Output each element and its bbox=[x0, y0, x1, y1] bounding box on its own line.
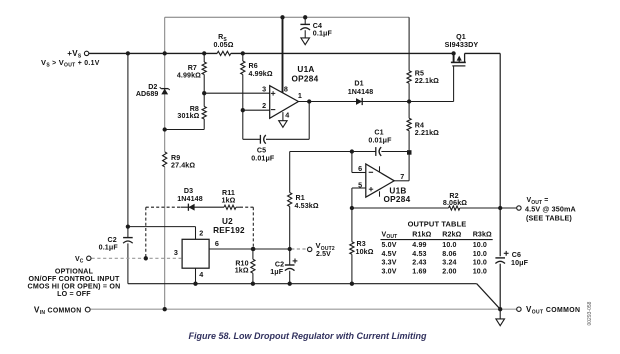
svg-text:00293-058: 00293-058 bbox=[587, 301, 593, 325]
svg-text:SI9433DY: SI9433DY bbox=[445, 40, 479, 49]
svg-text:0.1μF: 0.1μF bbox=[313, 29, 333, 37]
svg-text:4.5V: 4.5V bbox=[382, 250, 397, 258]
svg-text:4.99: 4.99 bbox=[412, 241, 426, 249]
svg-text:22.1kΩ: 22.1kΩ bbox=[415, 77, 439, 85]
svg-text:8.06: 8.06 bbox=[442, 250, 456, 258]
svg-text:R7: R7 bbox=[188, 64, 197, 72]
svg-text:4: 4 bbox=[199, 270, 203, 279]
svg-text:2: 2 bbox=[262, 101, 266, 110]
svg-text:10.0: 10.0 bbox=[473, 250, 487, 258]
svg-text:OP284: OP284 bbox=[384, 195, 411, 204]
svg-text:2.43: 2.43 bbox=[412, 259, 426, 267]
svg-text:4.99kΩ: 4.99kΩ bbox=[249, 70, 273, 78]
svg-text:1kΩ: 1kΩ bbox=[222, 197, 236, 205]
svg-text:4: 4 bbox=[285, 111, 289, 120]
svg-text:0.01μF: 0.01μF bbox=[368, 136, 392, 144]
svg-text:3: 3 bbox=[262, 84, 266, 93]
svg-text:R3kΩ: R3kΩ bbox=[473, 231, 492, 239]
svg-text:10.0: 10.0 bbox=[473, 259, 487, 267]
svg-text:4.99kΩ: 4.99kΩ bbox=[177, 72, 201, 80]
svg-text:LO = OFF: LO = OFF bbox=[57, 290, 91, 298]
svg-text:27.4kΩ: 27.4kΩ bbox=[171, 162, 195, 170]
svg-text:3.3V: 3.3V bbox=[382, 259, 397, 267]
svg-text:4.53kΩ: 4.53kΩ bbox=[295, 202, 319, 210]
svg-text:Figure 58. Low Dropout Regulat: Figure 58. Low Dropout Regulator with Cu… bbox=[189, 331, 427, 341]
svg-text:1.69: 1.69 bbox=[412, 267, 426, 275]
svg-text:R2kΩ: R2kΩ bbox=[442, 231, 461, 239]
svg-text:8.06kΩ: 8.06kΩ bbox=[443, 199, 467, 207]
svg-text:1μF: 1μF bbox=[270, 268, 284, 276]
svg-text:8: 8 bbox=[284, 85, 288, 94]
svg-text:4.53: 4.53 bbox=[412, 250, 426, 258]
svg-text:3.24: 3.24 bbox=[442, 259, 456, 267]
svg-text:R9: R9 bbox=[171, 154, 180, 162]
svg-text:10kΩ: 10kΩ bbox=[356, 248, 374, 256]
svg-text:1: 1 bbox=[298, 91, 302, 100]
svg-text:6: 6 bbox=[358, 164, 362, 173]
svg-text:10.0: 10.0 bbox=[473, 241, 487, 249]
svg-text:7: 7 bbox=[400, 172, 404, 181]
svg-text:0.1μF: 0.1μF bbox=[99, 243, 119, 251]
svg-text:1N4148: 1N4148 bbox=[177, 195, 203, 203]
svg-text:3: 3 bbox=[174, 248, 178, 257]
svg-text:5: 5 bbox=[358, 181, 362, 190]
svg-text:10.0: 10.0 bbox=[442, 241, 456, 249]
svg-text:REF192: REF192 bbox=[213, 226, 245, 235]
svg-text:10.0: 10.0 bbox=[473, 267, 487, 275]
svg-text:1kΩ: 1kΩ bbox=[235, 267, 249, 275]
svg-text:2.5V: 2.5V bbox=[316, 251, 331, 258]
svg-text:AD689: AD689 bbox=[136, 90, 159, 98]
svg-text:4.5V @ 350mA: 4.5V @ 350mA bbox=[525, 205, 576, 214]
svg-text:OUTPUT TABLE: OUTPUT TABLE bbox=[408, 219, 467, 228]
svg-text:R1kΩ: R1kΩ bbox=[412, 231, 431, 239]
svg-text:5.0V: 5.0V bbox=[382, 241, 397, 249]
svg-text:10μF: 10μF bbox=[511, 259, 529, 267]
svg-text:2.00: 2.00 bbox=[442, 267, 456, 275]
svg-text:OP284: OP284 bbox=[292, 74, 319, 83]
svg-text:C1: C1 bbox=[374, 129, 383, 137]
svg-text:R4: R4 bbox=[415, 121, 424, 129]
svg-text:R6: R6 bbox=[249, 62, 258, 70]
svg-text:(SEE TABLE): (SEE TABLE) bbox=[526, 213, 572, 222]
svg-text:301kΩ: 301kΩ bbox=[177, 112, 199, 120]
svg-text:2.21kΩ: 2.21kΩ bbox=[415, 129, 439, 137]
svg-text:D1: D1 bbox=[354, 80, 363, 88]
svg-text:U2: U2 bbox=[222, 217, 233, 226]
svg-text:R1: R1 bbox=[296, 194, 305, 202]
svg-text:6: 6 bbox=[215, 239, 219, 248]
svg-text:2: 2 bbox=[199, 228, 203, 237]
svg-text:U1A: U1A bbox=[297, 65, 314, 74]
svg-text:0.01μF: 0.01μF bbox=[251, 154, 275, 162]
svg-text:0.05Ω: 0.05Ω bbox=[213, 41, 233, 49]
svg-text:1N4148: 1N4148 bbox=[348, 88, 374, 96]
svg-text:3.0V: 3.0V bbox=[382, 267, 397, 275]
